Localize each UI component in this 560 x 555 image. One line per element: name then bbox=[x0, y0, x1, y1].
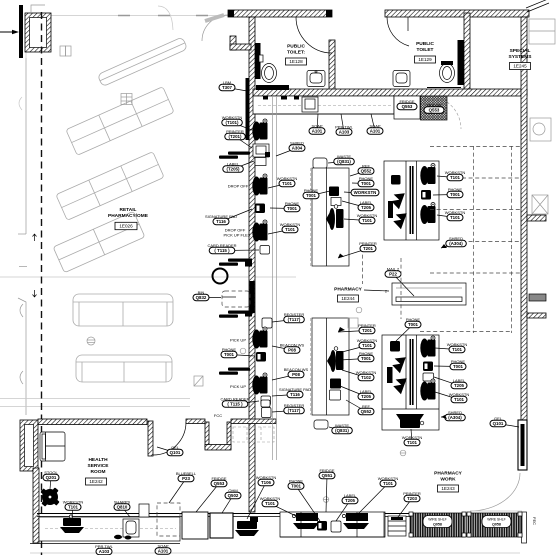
label PRINTER T201 a bbox=[235, 137, 252, 149]
faint floor line bbox=[0, 276, 296, 278]
svg-text:Q553: Q553 bbox=[429, 108, 440, 113]
faint floor line 2 bbox=[0, 398, 190, 400]
cluster upper rect bbox=[384, 161, 439, 240]
svg-text:Q552: Q552 bbox=[361, 409, 372, 414]
label REGISTER T117 b bbox=[272, 411, 294, 413]
dashed zone vline 2 bbox=[511, 146, 513, 333]
toilet1 door arc bbox=[296, 17, 332, 53]
counter dash centerline bbox=[258, 105, 392, 107]
counter sink fixture bbox=[302, 97, 318, 112]
wall health top C bbox=[231, 419, 276, 424]
wire shelf 2 label bbox=[482, 516, 511, 528]
wall pier bottom bbox=[139, 504, 149, 517]
svg-text:T001: T001 bbox=[361, 356, 372, 361]
floor symbol circle bbox=[87, 337, 95, 345]
svg-text:A101: A101 bbox=[312, 129, 323, 134]
label LBM T307 bbox=[227, 88, 247, 92]
svg-text:T201: T201 bbox=[362, 328, 373, 333]
svg-text:T001: T001 bbox=[450, 192, 461, 197]
svg-text:PICK UP: PICK UP bbox=[230, 384, 246, 389]
alcove right wall bbox=[227, 422, 231, 449]
door arc pharmacy work bbox=[470, 473, 520, 511]
dashed zone vline 1 bbox=[473, 146, 475, 333]
svg-text:P22: P22 bbox=[389, 272, 397, 277]
waste bin icon upper bbox=[313, 158, 327, 169]
cluster lower ws right 2 bbox=[420, 379, 435, 401]
grid symbol bbox=[121, 94, 132, 105]
label WORKSTN T101 d bbox=[344, 219, 367, 221]
counter wall strip bbox=[272, 96, 274, 460]
svg-text:RETAIL: RETAIL bbox=[120, 207, 137, 213]
label REGISTER T117 a bbox=[272, 320, 294, 323]
svg-text:1E245: 1E245 bbox=[513, 64, 527, 69]
dashed zone h2 bbox=[462, 177, 520, 179]
toilet1 sink bbox=[307, 71, 325, 87]
right fixture low bbox=[532, 195, 548, 214]
text smudge 4 bbox=[228, 368, 250, 371]
label SIGNATURE PAD T116 b bbox=[272, 395, 295, 397]
faint floor line 3 bbox=[0, 406, 190, 408]
svg-text:( T115 ): ( T115 ) bbox=[214, 248, 230, 253]
lower counter shelf bbox=[348, 318, 358, 328]
cluster upper ws right 2 bbox=[420, 203, 435, 225]
counter under toilets bbox=[253, 96, 394, 114]
svg-text:T001: T001 bbox=[361, 181, 372, 186]
wall right below door bbox=[522, 512, 527, 543]
svg-text:T001: T001 bbox=[291, 484, 302, 489]
svg-text:T101: T101 bbox=[383, 481, 394, 486]
door header bbox=[427, 87, 461, 89]
pw ws glyph 1 bbox=[296, 513, 318, 521]
dashed zone h5 bbox=[430, 272, 520, 274]
room tag 1E026 bbox=[115, 222, 137, 229]
gray circle 2 bbox=[400, 450, 406, 456]
ws2 chair bbox=[252, 174, 267, 196]
down arrow bbox=[33, 290, 37, 297]
svg-text:WORK: WORK bbox=[440, 477, 456, 483]
grid line top bbox=[33, 15, 232, 17]
svg-text:(T205): (T205) bbox=[227, 167, 240, 172]
right dark bar bbox=[529, 294, 546, 301]
svg-text:T101: T101 bbox=[362, 218, 373, 223]
svg-text:T101: T101 bbox=[450, 215, 461, 220]
svg-text:T001: T001 bbox=[224, 352, 235, 357]
room tag 1E128 bbox=[286, 58, 307, 65]
label WORKSTN T101 g bbox=[342, 346, 367, 353]
svg-text:T001: T001 bbox=[408, 322, 419, 327]
label PHONE T001 e bbox=[433, 194, 455, 197]
label WORKSTN T101 c bbox=[268, 230, 290, 235]
svg-text:DROP OFF: DROP OFF bbox=[228, 184, 249, 189]
ws5 chair bbox=[252, 373, 267, 395]
svg-text:T116: T116 bbox=[216, 219, 226, 224]
svg-text:TOILET: TOILET bbox=[417, 47, 434, 53]
label WORKSTN T101 j bbox=[411, 429, 412, 443]
label WORKSTN T101 b bbox=[268, 184, 287, 189]
left gray hook bbox=[18, 233, 26, 235]
svg-text:T205: T205 bbox=[361, 205, 372, 210]
pw dashed casework bbox=[233, 427, 274, 442]
svg-text:( T115 ): ( T115 ) bbox=[227, 402, 243, 407]
datum line bbox=[0, 31, 17, 33]
pharmacy leader bbox=[364, 290, 389, 291]
svg-text:1E128: 1E128 bbox=[289, 59, 303, 64]
label WORKSTN T101 e bbox=[437, 176, 455, 178]
svg-text:T101: T101 bbox=[282, 181, 293, 186]
label PHONE T001 g bbox=[340, 359, 366, 361]
right fixture mid bbox=[530, 118, 551, 141]
svg-text:T001: T001 bbox=[287, 206, 298, 211]
pw counter bbox=[280, 512, 385, 537]
exam bed bbox=[40, 432, 65, 461]
svg-text:FEC: FEC bbox=[532, 517, 537, 525]
wall column core bbox=[25, 425, 34, 467]
label BLUEBELL P23 bbox=[169, 479, 186, 504]
cluster upper monitor left bbox=[391, 175, 401, 185]
wire shelf 1 bbox=[410, 513, 465, 537]
cluster lower phone right bbox=[423, 362, 433, 372]
wall left lower bbox=[33, 468, 39, 543]
svg-text:T203: T203 bbox=[407, 496, 418, 501]
couch C2 bbox=[76, 355, 172, 382]
toilet2 door arc bbox=[387, 17, 409, 46]
svg-text:T101: T101 bbox=[407, 440, 418, 445]
svg-text:Q101: Q101 bbox=[493, 421, 504, 426]
svg-text:WORKSTN: WORKSTN bbox=[354, 190, 377, 195]
label SIGNATURE PAD T116 bbox=[221, 209, 252, 222]
pw ws glyph 2 bbox=[346, 513, 368, 521]
svg-text:T101: T101 bbox=[450, 175, 461, 180]
svg-text:Q832: Q832 bbox=[196, 295, 207, 300]
wall dark segment bbox=[249, 281, 254, 313]
svg-text:T201: T201 bbox=[363, 246, 374, 251]
left gray tick bbox=[19, 266, 27, 268]
wall column ring bbox=[20, 420, 38, 471]
dispensers bottom bbox=[114, 535, 122, 539]
lbm dark bar bbox=[246, 78, 250, 140]
svg-text:PUBLIC: PUBLIC bbox=[416, 41, 434, 47]
label PHONE T001 a bbox=[229, 355, 255, 357]
wall main vertical bbox=[249, 17, 255, 512]
white box pickup bbox=[262, 318, 272, 328]
label WORKSTN T101 f bbox=[437, 215, 455, 218]
text smudge 3 bbox=[228, 311, 250, 314]
fec symbol mid bbox=[194, 376, 203, 386]
soap label 1 bbox=[317, 114, 318, 131]
health counter dash bbox=[45, 528, 176, 530]
wall corner tick bbox=[526, 0, 549, 12]
toilet1 tab bbox=[259, 55, 263, 62]
gondola G2 bbox=[66, 87, 174, 156]
svg-text:T102: T102 bbox=[361, 375, 372, 380]
wall stub right 2 bbox=[527, 313, 546, 318]
bottom wall line bbox=[37, 513, 410, 515]
gray circle 1 bbox=[323, 497, 329, 503]
register dev2 bbox=[262, 408, 272, 418]
svg-text:PICK UP FLEX: PICK UP FLEX bbox=[223, 233, 250, 238]
lower counter dash edge bbox=[310, 318, 312, 415]
wall right vertical bbox=[521, 17, 527, 420]
label PHONE T001 d bbox=[352, 182, 366, 185]
soffit gray bbox=[158, 6, 173, 30]
label PHONE T001 b bbox=[270, 207, 292, 210]
svg-text:1E242: 1E242 bbox=[89, 479, 103, 484]
svg-text:(A304): (A304) bbox=[449, 241, 463, 246]
paren arc 2 bbox=[20, 371, 23, 384]
dashed grid x401 bbox=[400, 258, 402, 319]
upper counter bbox=[312, 168, 349, 266]
svg-text:WIRE SHLF: WIRE SHLF bbox=[487, 518, 505, 522]
svg-text:T001: T001 bbox=[306, 193, 317, 198]
phone1 bbox=[255, 204, 265, 214]
column top gray bbox=[31, 5, 45, 13]
label device bbox=[255, 158, 266, 166]
room tag 1E129 bbox=[415, 56, 436, 63]
room tag 1E242 bbox=[86, 478, 107, 485]
shelf posts bbox=[409, 512, 522, 537]
svg-text:Q201: Q201 bbox=[46, 475, 57, 480]
label WORKSTN T102 bbox=[342, 370, 366, 378]
label LABEL T205 c bbox=[340, 386, 366, 397]
wall alcove vert bbox=[230, 36, 236, 50]
room tag 1E245 bbox=[510, 63, 531, 70]
cluster end workstation bbox=[396, 414, 424, 420]
svg-text:FCC: FCC bbox=[214, 413, 222, 418]
label mail2 P22 bbox=[393, 274, 414, 296]
left gray wall line upper bbox=[26, 16, 33, 59]
soap label 2 bbox=[371, 114, 375, 131]
label SHRED A304 c bbox=[441, 416, 455, 419]
wall long horizontal bbox=[253, 89, 527, 96]
column core bbox=[30, 18, 47, 48]
printer device bbox=[253, 144, 269, 157]
svg-text:T101: T101 bbox=[265, 501, 276, 506]
health ws glyph bbox=[63, 518, 81, 526]
svg-text:P08: P08 bbox=[292, 372, 300, 377]
svg-text:ROOM: ROOM bbox=[91, 469, 106, 475]
text smudge 2 bbox=[228, 259, 250, 262]
gray circle 3 bbox=[240, 348, 246, 354]
left gray wall line lower bbox=[18, 298, 26, 415]
svg-text:Q502: Q502 bbox=[228, 493, 239, 498]
wall toilet1 right bbox=[329, 40, 335, 95]
wall health top B bbox=[186, 419, 205, 424]
svg-text:1E243: 1E243 bbox=[441, 486, 455, 491]
gondola G1 bbox=[97, 37, 187, 87]
label LABEL T205 a bbox=[233, 161, 254, 169]
ws3 chair bbox=[252, 220, 267, 242]
dashed zone h6 bbox=[420, 331, 511, 333]
health counter bbox=[39, 517, 180, 541]
wall alcove horiz bbox=[230, 44, 251, 50]
label WORKSTN T106 bbox=[247, 483, 266, 520]
cluster lower ws right 1 bbox=[420, 336, 435, 358]
svg-text:Q101: Q101 bbox=[170, 450, 181, 455]
cluster lower label box bbox=[423, 373, 434, 381]
svg-text:T106: T106 bbox=[261, 480, 272, 485]
pw printer bbox=[388, 516, 406, 536]
label GEL Q101 a bbox=[498, 424, 519, 428]
pprtwl label bbox=[341, 114, 344, 132]
toilet1 chase bbox=[255, 43, 261, 79]
svg-text:T205: T205 bbox=[454, 383, 465, 388]
svg-text:T205: T205 bbox=[345, 498, 356, 503]
room tag 1E243 bbox=[438, 485, 459, 492]
wall toilet2 right bbox=[464, 13, 470, 95]
label WORKSTN stadium bbox=[351, 189, 379, 195]
label SHARPS Q810 bbox=[122, 507, 130, 517]
couch C1 bbox=[73, 294, 173, 326]
health door leaf bbox=[148, 421, 153, 456]
svg-text:Q058: Q058 bbox=[492, 523, 501, 527]
ohm box bbox=[210, 513, 233, 538]
label PHONE T001 f bbox=[396, 325, 413, 342]
dashed zone h3 bbox=[430, 209, 520, 211]
svg-text:Q810: Q810 bbox=[117, 505, 128, 510]
label WORKSTN T101 i bbox=[435, 392, 459, 400]
monitor lower bbox=[330, 379, 341, 389]
label PRINTER T201 c bbox=[338, 331, 367, 333]
mail counter P22 bbox=[392, 283, 466, 305]
svg-text:T101: T101 bbox=[285, 227, 296, 232]
label OHM Q502 bbox=[222, 496, 233, 514]
retail door arc bbox=[202, 15, 228, 41]
bluebell dashed rect bbox=[157, 503, 180, 536]
register dev3 bbox=[261, 400, 270, 407]
svg-text:A101: A101 bbox=[158, 549, 169, 554]
waste bin icon lower bbox=[314, 420, 328, 429]
label BIN Q832 bbox=[201, 297, 221, 299]
stool circle 1 bbox=[213, 269, 228, 284]
monitor upper bbox=[329, 187, 339, 197]
dashed path line bbox=[41, 12, 43, 555]
svg-text:PICK UP: PICK UP bbox=[230, 338, 246, 343]
svg-text:A103: A103 bbox=[339, 130, 350, 135]
svg-text:TOILET:: TOILET: bbox=[287, 50, 305, 56]
cluster upper bar left bbox=[388, 201, 393, 218]
cluster upper chair left 2 bbox=[392, 210, 407, 229]
label STOOL Q201 bbox=[50, 478, 51, 490]
room tag 1E244 bbox=[338, 295, 359, 302]
label PRINTER T203 bbox=[398, 499, 412, 518]
svg-text:WIRE SHLF: WIRE SHLF bbox=[428, 518, 446, 522]
label WORKSTN T101 l bbox=[270, 504, 296, 517]
label WASTE Q831 b bbox=[329, 427, 342, 431]
stool glyph bbox=[35, 482, 65, 512]
column hatched bbox=[25, 13, 51, 52]
ws1 chair bbox=[252, 119, 267, 141]
pw ws glyph side bbox=[237, 521, 257, 529]
label REF Q552 a bbox=[350, 171, 366, 176]
svg-text:T307: T307 bbox=[222, 85, 233, 90]
up arrow bbox=[33, 234, 37, 241]
label PHONE T001 c bbox=[311, 191, 330, 196]
svg-text:A101: A101 bbox=[370, 129, 381, 134]
paren arc 3 bbox=[19, 97, 22, 110]
alcove bottom bbox=[205, 445, 231, 451]
cluster lower chair left 1 bbox=[391, 354, 406, 373]
card reader dev bbox=[260, 246, 270, 255]
ws4 chair bbox=[252, 327, 267, 349]
label PRINTER T201 b bbox=[338, 249, 368, 259]
svg-text:T101: T101 bbox=[454, 397, 465, 402]
wall bar left bbox=[19, 5, 23, 58]
label LABEL T205 b bbox=[342, 201, 366, 208]
svg-text:PUBLIC: PUBLIC bbox=[287, 44, 305, 50]
svg-text:(T117): (T117) bbox=[288, 408, 301, 413]
grid dash marks bbox=[118, 15, 208, 17]
chair upper counter bbox=[329, 208, 335, 230]
svg-text:1E129: 1E129 bbox=[418, 57, 432, 62]
wall top toilet1 bbox=[228, 10, 332, 17]
svg-text:Q552: Q552 bbox=[361, 169, 372, 174]
bin dashed rect bbox=[222, 291, 250, 307]
svg-text:(A304): (A304) bbox=[448, 415, 462, 420]
cluster lower spine bbox=[405, 335, 407, 409]
svg-text:1E244: 1E244 bbox=[341, 296, 355, 301]
dashed zone h4 bbox=[462, 241, 520, 243]
svg-text:Q058: Q058 bbox=[433, 523, 442, 527]
label SHRED A304 a bbox=[276, 148, 297, 156]
svg-text:T101: T101 bbox=[452, 347, 463, 352]
wire shelf 2 bbox=[468, 513, 522, 537]
chair lower counter bbox=[330, 350, 336, 372]
svg-text:A304: A304 bbox=[292, 146, 303, 151]
label GEL Q101 b bbox=[157, 447, 175, 453]
fec symbol top bbox=[60, 46, 66, 56]
svg-text:SERVICE: SERVICE bbox=[88, 463, 110, 469]
left gray wall line bbox=[25, 58, 27, 234]
dashed pharmacy vline bbox=[362, 248, 364, 284]
cluster lower bar left bbox=[387, 367, 393, 383]
lower counter bbox=[312, 318, 349, 415]
cluster upper chair left 1 bbox=[390, 190, 405, 209]
svg-text:PHARMACY: PHARMACY bbox=[434, 471, 463, 477]
wall top right bbox=[385, 10, 529, 17]
label FRIDGE Q553 b bbox=[196, 484, 219, 513]
label BEACON WS P08 b bbox=[272, 375, 296, 381]
wall stub right 1 bbox=[527, 215, 546, 221]
label WORKSTN T101 h bbox=[435, 348, 457, 350]
svg-text:2: 2 bbox=[385, 290, 387, 294]
svg-text:P23: P23 bbox=[182, 476, 190, 481]
wire shelf 1 label bbox=[423, 516, 452, 528]
toilet2 door panel bbox=[458, 40, 465, 85]
fridge Q553 box bbox=[182, 512, 208, 539]
label BEACON WS P08 a bbox=[272, 346, 292, 350]
label PHONE T001 h bbox=[434, 365, 458, 368]
toilet2 sink bbox=[393, 71, 410, 87]
svg-text:T116: T116 bbox=[290, 392, 300, 397]
svg-text:T101: T101 bbox=[362, 343, 373, 348]
faint bottom line bbox=[30, 552, 520, 554]
dispenser marks bbox=[281, 96, 287, 100]
label LABEL T205 e bbox=[336, 501, 350, 522]
svg-text:HEALTH: HEALTH bbox=[88, 457, 108, 463]
label WORKSTN T101 k bbox=[72, 507, 73, 517]
label WORKSTN T101 a bbox=[232, 123, 252, 131]
toilet2 wc bbox=[440, 64, 455, 83]
wall health top A bbox=[38, 419, 147, 425]
card reader dev2 bbox=[261, 396, 271, 405]
shelf divider line bbox=[466, 513, 468, 537]
toilet1 wc bbox=[262, 64, 277, 83]
label REF Q552 b bbox=[346, 400, 366, 412]
phone2 bbox=[256, 352, 266, 362]
right fixtures top bbox=[529, 19, 555, 44]
label WASTE Q831 a bbox=[328, 162, 344, 164]
label PHONE T001 i bbox=[296, 486, 320, 521]
